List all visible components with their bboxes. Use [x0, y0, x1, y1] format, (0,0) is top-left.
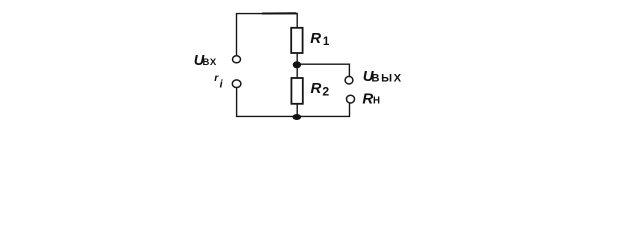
- svg-text:1: 1: [323, 35, 330, 48]
- svg-text:Н: Н: [373, 96, 380, 107]
- node junction between R1 and R2: [293, 61, 301, 68]
- node bottom junction below R2: [292, 114, 301, 120]
- terminal U_vyh: [345, 76, 353, 84]
- svg-text:ВХ: ВХ: [203, 57, 218, 68]
- terminal R_n: [347, 95, 355, 103]
- wire middle junction to U_vyh terminal: [297, 64, 349, 76]
- resistor R1: [291, 28, 302, 53]
- wire top rail scan smudge: [262, 12, 297, 14]
- wire middle junction to R2 top: [296, 65, 298, 78]
- svg-text:R: R: [310, 30, 321, 47]
- wire bottom rail from r_i terminal to R_n terminal: [237, 88, 350, 117]
- terminal U_vx: [233, 56, 241, 63]
- wire from U_vx terminal up and across to R1 top: [237, 14, 298, 56]
- svg-text:R: R: [311, 80, 322, 97]
- wire R1 bottom to middle junction: [296, 53, 298, 65]
- svg-text:r: r: [214, 72, 219, 84]
- wire R2 bottom to bottom junction: [296, 104, 298, 117]
- terminal r_i: [232, 80, 241, 88]
- svg-text:ВЫХ: ВЫХ: [371, 73, 402, 85]
- resistor R2: [291, 78, 302, 104]
- svg-text:R: R: [362, 91, 373, 108]
- svg-text:2: 2: [322, 85, 329, 99]
- svg-text:i: i: [220, 79, 224, 91]
